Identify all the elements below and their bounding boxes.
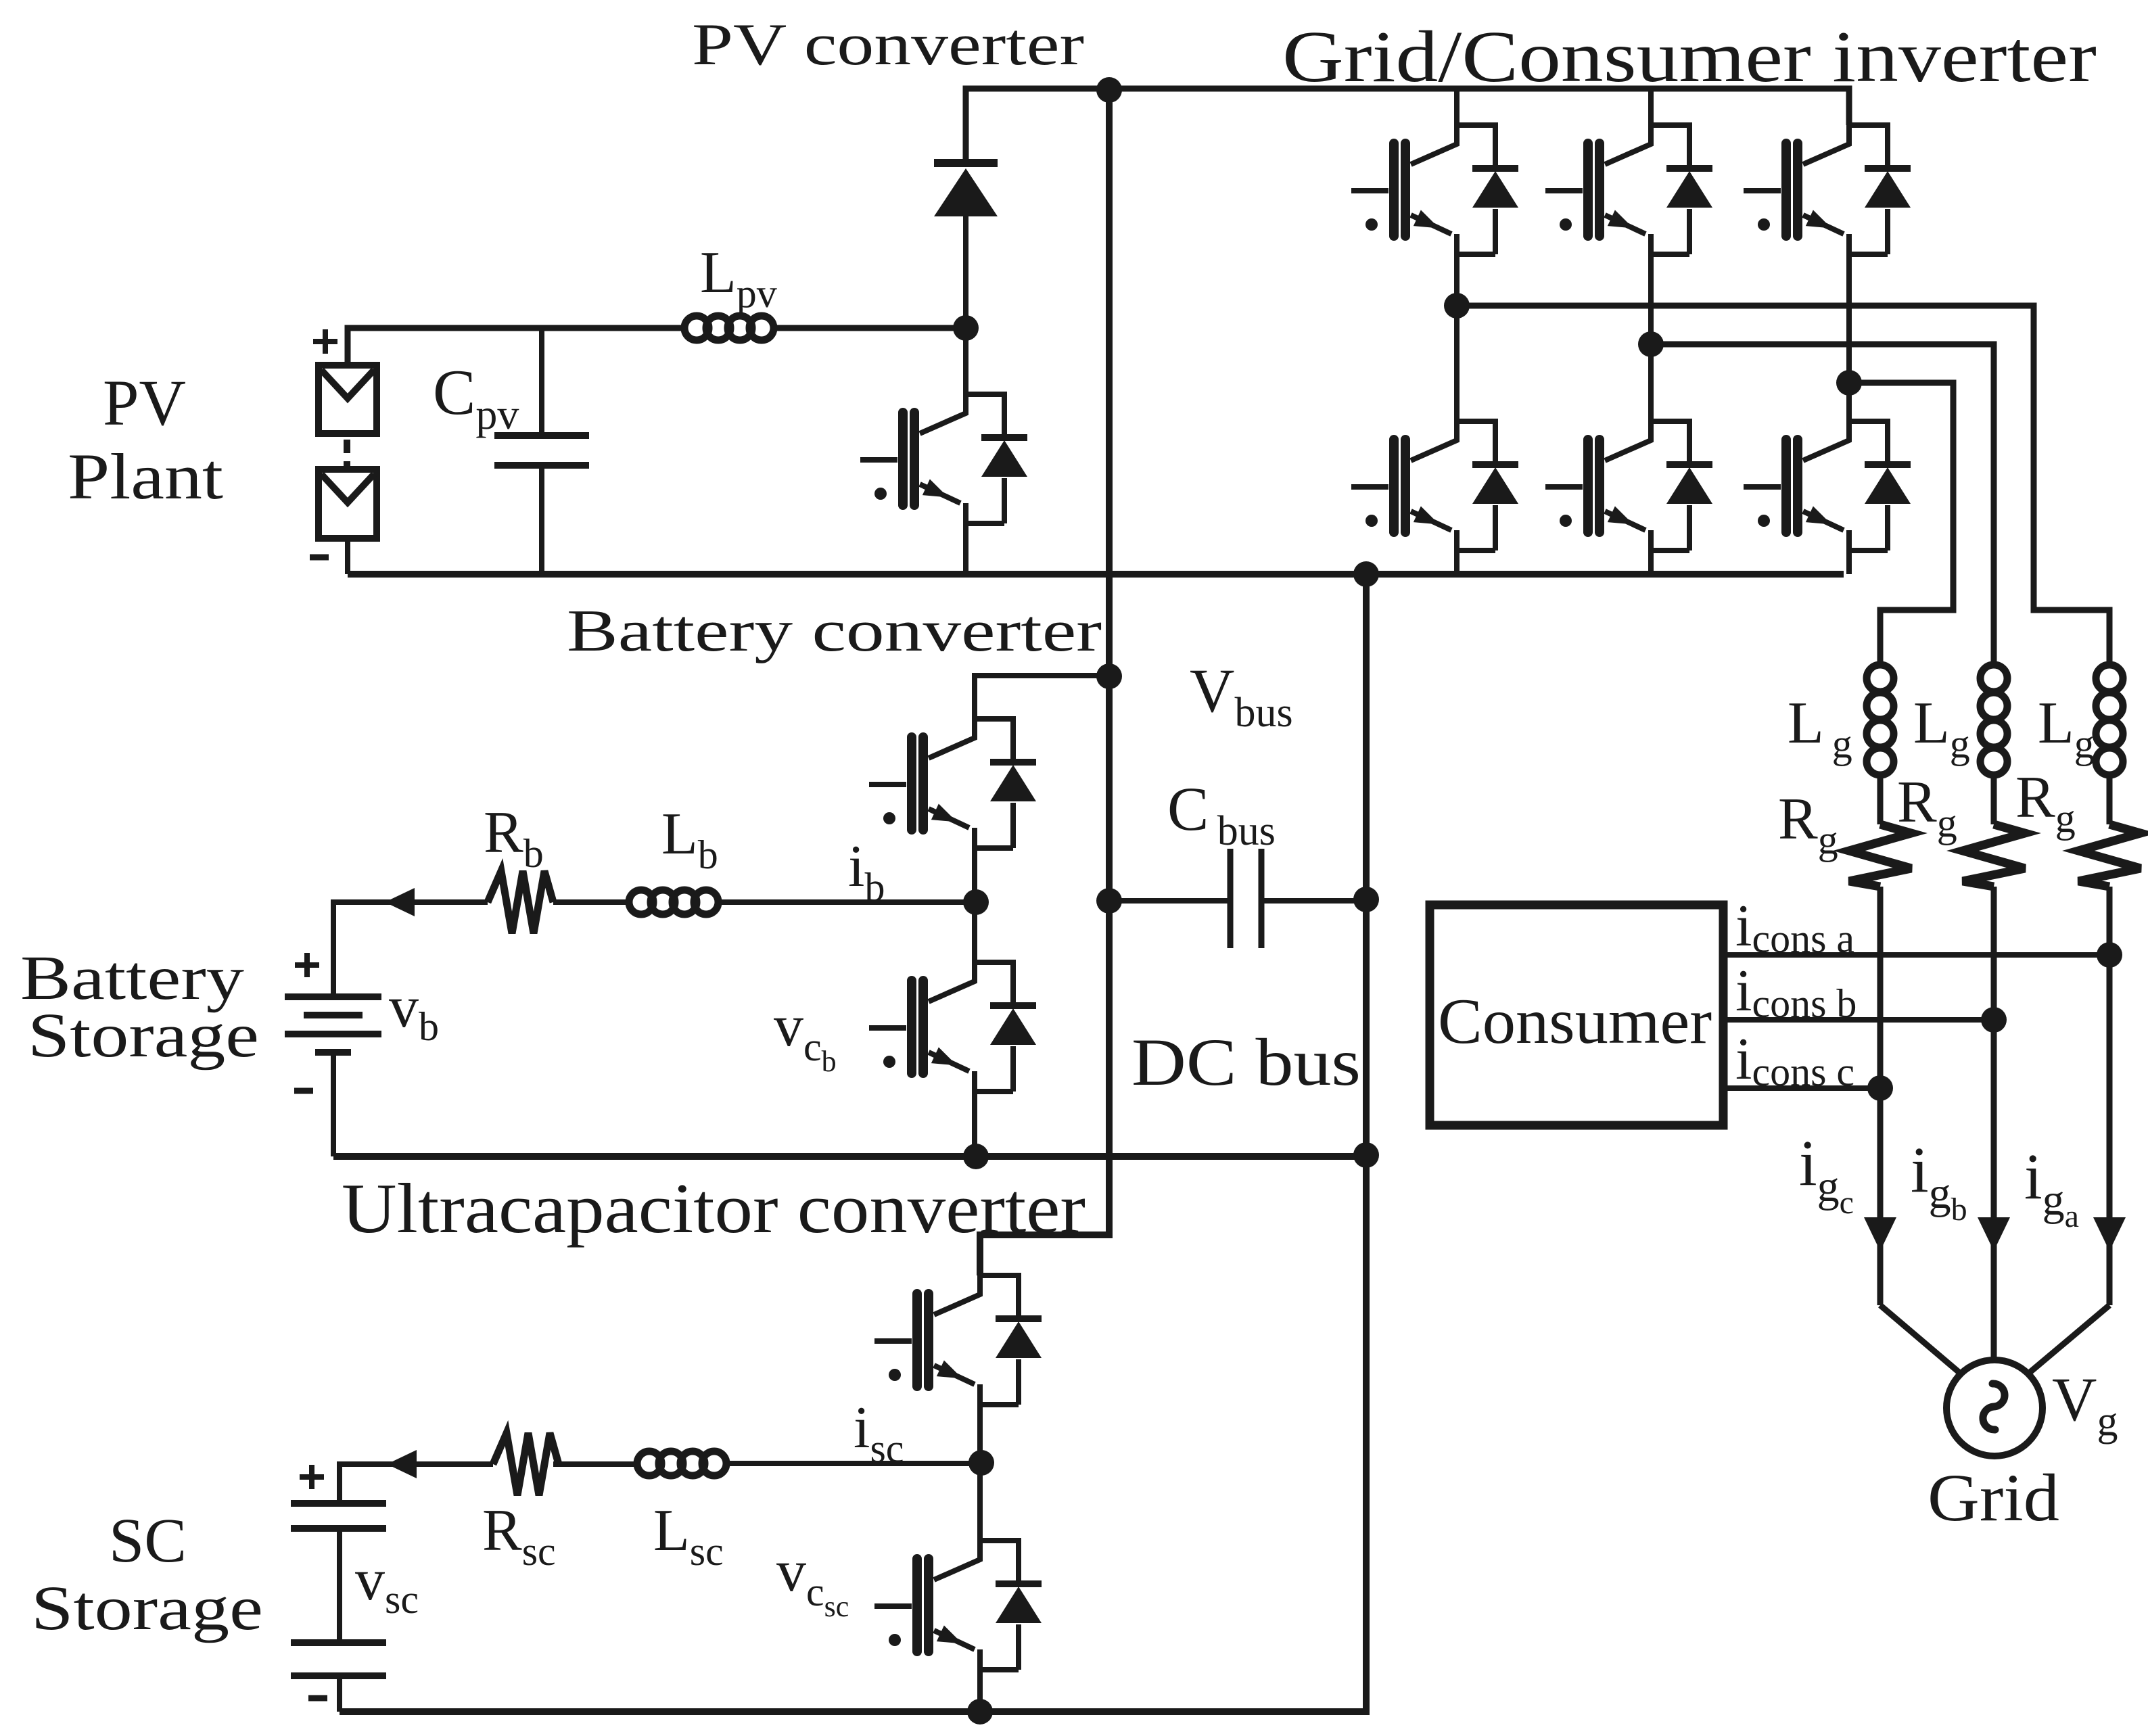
svg-text:DC bus: DC bus bbox=[1131, 1025, 1361, 1100]
capacitor C_pv bbox=[539, 328, 544, 436]
wire: inverter leg a bottom bbox=[1454, 550, 1460, 574]
node: SC phase node bbox=[968, 1450, 994, 1476]
wire: phase a to grid bbox=[2107, 887, 2113, 1305]
wire: inverter leg c bottom bbox=[1846, 550, 1852, 574]
wire: battery bottom rail bbox=[333, 1153, 1366, 1160]
wire: PV plant bottom lead bbox=[345, 538, 350, 574]
transistor Q_sc1 (IGBT with antiparallel diode) bbox=[874, 1275, 1042, 1405]
wire: inverter leg b middle bbox=[1648, 254, 1654, 421]
battery source v_b bbox=[285, 993, 381, 1000]
capacitor C_bus bbox=[1109, 898, 1230, 904]
svg-text:Battery converter: Battery converter bbox=[567, 599, 1102, 664]
inductor L_pv bbox=[684, 316, 709, 340]
wire: grid current arrow i_gc bbox=[1864, 1217, 1896, 1251]
node: battery phase node bbox=[963, 889, 989, 915]
svg-text:Storage: Storage bbox=[28, 1001, 259, 1071]
wire: i_cons b bbox=[1727, 1017, 1994, 1023]
resistor R_sc bbox=[493, 1433, 559, 1495]
node: phase c midpoint bbox=[1836, 370, 1862, 396]
node: C_bus right junction bbox=[1353, 887, 1379, 912]
wire: phase c to grid bbox=[1877, 887, 1884, 1305]
inductor L_g phase a bbox=[2096, 665, 2123, 692]
node: battery plus sign bbox=[295, 962, 319, 968]
Consumer block bbox=[1430, 905, 1723, 1125]
transistor Q_b2 (IGBT with antiparallel diode) bbox=[1545, 421, 1712, 550]
wire: phase c below coil bbox=[1877, 775, 1884, 824]
wire: i_cons c bbox=[1727, 1085, 1880, 1091]
wire: phase a below coil bbox=[2107, 775, 2113, 824]
node: SC minus sign bbox=[308, 1695, 327, 1702]
svg-text:Grid: Grid bbox=[1928, 1460, 2059, 1535]
node: i_cons b junction bbox=[1981, 1007, 2007, 1033]
wire i_sc: SC feeder bbox=[340, 1464, 493, 1503]
inductor L_sc bbox=[637, 1451, 661, 1476]
node: C_bus left junction bbox=[1096, 888, 1122, 914]
node: PV minus terminal bbox=[310, 555, 329, 561]
node: battery converter / DC bus bbox=[1096, 663, 1122, 689]
wire: dashed link between PV modules bbox=[344, 440, 350, 468]
node: top rail junction bbox=[1096, 77, 1122, 103]
wire: phase a output bbox=[1457, 306, 2109, 665]
node: battery minus sign bbox=[294, 1088, 313, 1094]
resistor R_g phase a bbox=[2078, 824, 2141, 887]
svg-text:SC: SC bbox=[109, 1506, 187, 1576]
transistor Q_c2 (IGBT with antiparallel diode) bbox=[1744, 421, 1911, 550]
wire: inverter leg a middle bbox=[1454, 254, 1460, 421]
svg-text:Plant: Plant bbox=[68, 440, 223, 513]
resistor R_g phase b bbox=[1963, 824, 2025, 887]
wire: inverter leg b bottom bbox=[1648, 550, 1654, 574]
node: phase b midpoint bbox=[1638, 331, 1664, 357]
wire: battery leg bottom bbox=[972, 1092, 977, 1156]
wire: DC bus right vertical + SC bottom rail bbox=[340, 574, 1366, 1712]
wire: DC bus left vertical bbox=[980, 89, 1109, 1275]
wire: phase c output bbox=[1849, 383, 1953, 665]
wire: inverter leg c middle bbox=[1846, 254, 1852, 421]
wire: battery converter top rail bbox=[975, 676, 1109, 719]
transistor Q_a2 (IGBT with antiparallel diode) bbox=[1351, 421, 1518, 550]
wire: phase b below coil bbox=[1991, 775, 1997, 824]
capacitor stack v_sc (SC storage) bbox=[291, 1500, 386, 1507]
PV module 2 bbox=[319, 469, 377, 538]
wire: inverter leg b top bbox=[1648, 90, 1654, 125]
node: PV plus terminal bbox=[313, 339, 337, 344]
resistor R_g phase c bbox=[1849, 824, 1911, 887]
wire: SC leg bottom bbox=[977, 1670, 983, 1712]
wire: phase b to grid bbox=[1991, 887, 1997, 1360]
source V_g (grid) bbox=[1946, 1360, 2042, 1456]
svg-text:PV: PV bbox=[103, 367, 186, 439]
wire: phase b output bbox=[1651, 344, 1994, 665]
node: battery rail / right bus junction bbox=[1353, 1142, 1379, 1168]
transistor Q_c1 (IGBT with antiparallel diode) bbox=[1744, 125, 1911, 254]
inductor L_b bbox=[629, 890, 653, 914]
wire: i_cons a bbox=[1727, 952, 2109, 958]
transistor Q_a1 (IGBT with antiparallel diode) bbox=[1351, 125, 1518, 254]
PV module 1 bbox=[319, 365, 377, 433]
svg-text:Storage: Storage bbox=[31, 1574, 263, 1643]
node: SC bottom rail junction bbox=[967, 1699, 993, 1725]
node: i_cons a junction bbox=[2097, 942, 2122, 968]
resistor R_b bbox=[488, 871, 553, 933]
wire: PV IGBT leads bbox=[963, 328, 968, 394]
wire: SC leg middle bbox=[977, 1405, 983, 1541]
wire: SC arrow bbox=[387, 1450, 417, 1478]
transistor Q_b2 (IGBT with antiparallel diode) bbox=[869, 962, 1036, 1092]
node: battery bottom rail junction bbox=[963, 1144, 989, 1169]
diode D_pv (boost diode) bbox=[963, 216, 968, 328]
transistor Q_sc2 (IGBT with antiparallel diode) bbox=[874, 1541, 1042, 1670]
inductor L_g phase b bbox=[1980, 665, 2007, 692]
wire i_b: battery feeder bbox=[333, 902, 488, 997]
transistor Q_b1 (IGBT with antiparallel diode) bbox=[1545, 125, 1712, 254]
node: SC plus sign bbox=[300, 1474, 324, 1480]
transistor Q_pv (IGBT with antiparallel diode) bbox=[860, 394, 1027, 523]
inductor L_g phase c bbox=[1867, 665, 1894, 692]
node: i_cons c junction bbox=[1867, 1075, 1893, 1101]
svg-text:PV converter: PV converter bbox=[692, 12, 1084, 78]
node: phase a midpoint bbox=[1444, 293, 1470, 319]
wire: battery leg middle bbox=[972, 848, 977, 962]
wire: PV plant top rail bbox=[348, 328, 684, 365]
wire: grid current arrow i_gb bbox=[1978, 1217, 2010, 1251]
svg-text:Ultracapacitor converter: Ultracapacitor converter bbox=[342, 1169, 1085, 1248]
svg-text:Consumer: Consumer bbox=[1438, 985, 1712, 1057]
wire: grid current arrow i_ga bbox=[2093, 1217, 2126, 1251]
wire: lower DC rail (PV minus / inverter bottom) bbox=[348, 571, 1844, 578]
wire: inverter leg a top bbox=[1454, 90, 1460, 125]
svg-text:Grid/Consumer inverter: Grid/Consumer inverter bbox=[1282, 17, 2097, 97]
node: lower rail / right bus junction bbox=[1353, 561, 1379, 587]
wire: top DC rail bbox=[966, 89, 1849, 163]
transistor Q_b1 (IGBT with antiparallel diode) bbox=[869, 719, 1036, 848]
wire: battery arrow bbox=[385, 888, 415, 916]
node A: PV converter switch node bbox=[953, 315, 979, 341]
